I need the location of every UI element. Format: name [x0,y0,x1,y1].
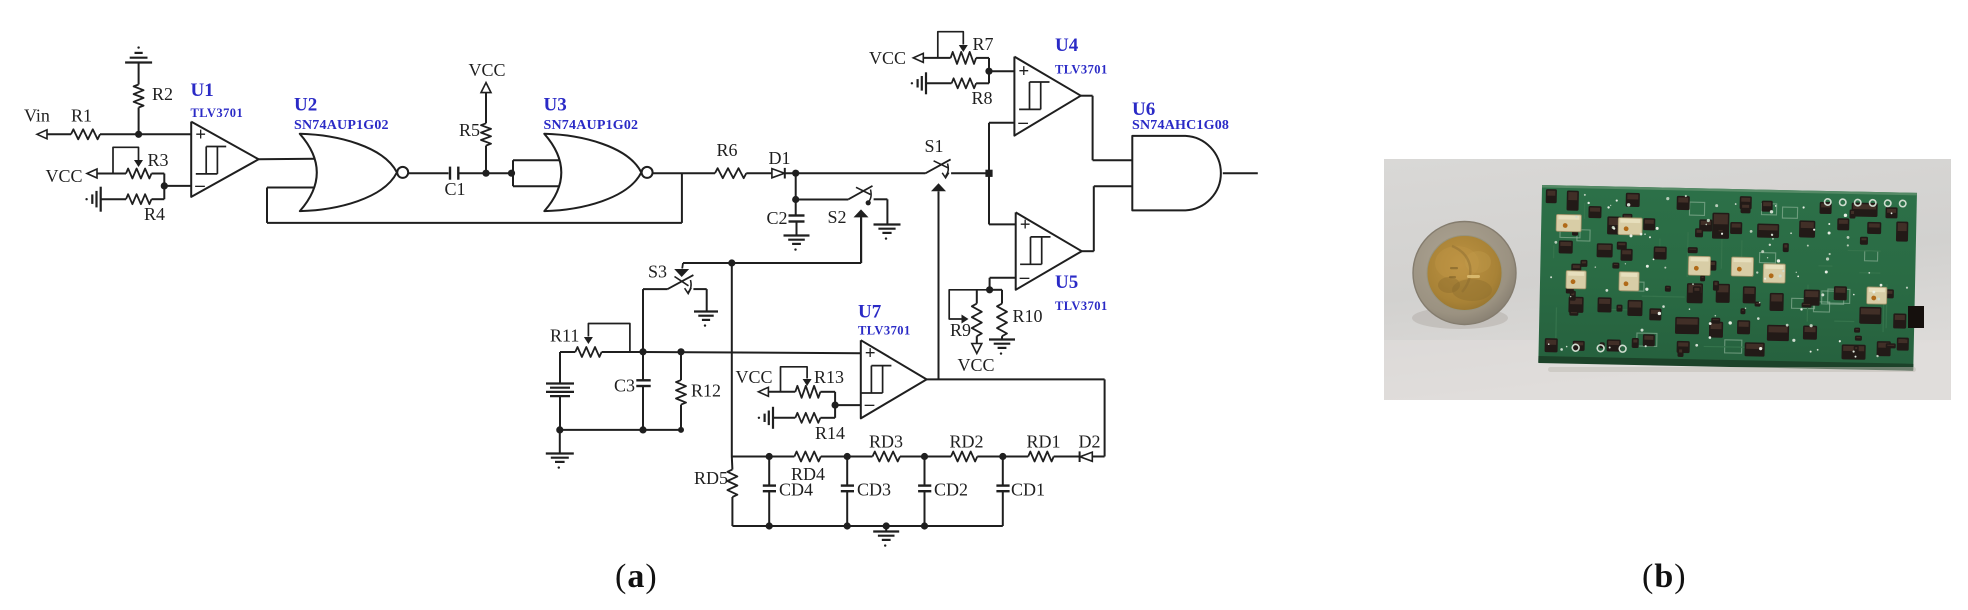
2 euro coin outer ring [1413,222,1516,325]
port VCC for R3 [46,166,98,186]
svg-text:C3: C3 [614,376,635,396]
wire U1- input [164,185,191,187]
resistor RD4 [791,452,825,485]
wire battery to bottom rail [556,396,563,433]
S1 right contact wire [951,172,985,174]
label S1 [925,136,944,156]
schematic panel (a) [0,0,1340,610]
svg-text:TLV3701: TLV3701 [1055,63,1108,77]
wire U5 minus down to R9/R10 node [986,278,1016,294]
resistor R4 [101,194,165,224]
S2 actuator arrow [854,209,869,263]
capacitor C2 [767,208,805,228]
svg-text:U4: U4 [1055,35,1079,56]
label U6 [1132,99,1155,120]
ground above R2 (flipped) [125,46,152,84]
svg-text:–: – [1017,112,1028,133]
PCB bottom shadow [1548,367,1916,372]
svg-text:CD4: CD4 [779,480,813,500]
switch S2 [828,186,873,227]
resistor R1 [71,106,100,140]
svg-text:–: – [194,175,205,196]
wire to switch S2 [796,199,849,201]
wire U5 out to U6 bottom input [1082,186,1133,251]
S3 left contact wire down to C3 node [643,289,668,352]
svg-text:R5: R5 [459,120,480,140]
port Vin arrow [37,130,47,139]
resistor R14 [773,413,845,443]
label U4 [1055,35,1079,56]
label U4 TLV3701 [1055,63,1108,77]
svg-text:–: – [1019,267,1030,288]
label U3 SN74AUP1G02 [544,118,639,133]
ground below battery [546,430,574,469]
svg-text:+: + [1018,61,1029,82]
PCB beige relay components [1555,214,1889,304]
svg-text:RD3: RD3 [869,432,903,452]
svg-text:TLV3701: TLV3701 [1055,299,1108,313]
svg-text:D2: D2 [1079,432,1101,452]
svg-text:+: + [195,124,206,145]
resistor R6 [715,140,746,178]
ground below C2 [784,222,810,251]
ground for R8 (rotated) [911,72,926,94]
svg-text:CD3: CD3 [857,480,891,500]
svg-text:SN74AHC1G08: SN74AHC1G08 [1132,118,1229,133]
svg-text:U3: U3 [544,95,567,116]
VCC port below R9 [957,336,994,375]
svg-text:R11: R11 [550,326,579,346]
resistor R12 [676,348,721,433]
svg-text:U1: U1 [191,80,214,101]
capacitor CD2 [918,457,968,527]
bottom rail battery-C3-R12 [560,429,681,431]
port Vin label [24,106,50,126]
svg-text:D1: D1 [769,148,791,168]
svg-text:U2: U2 [294,95,317,116]
svg-text:R14: R14 [815,423,845,443]
switch S1 [925,159,950,178]
capacitor CD3 [841,457,891,527]
port VCC for R7 [869,48,923,68]
ladder top rail [732,453,1080,460]
battery B1 [546,384,574,397]
wire D1 to S1 [785,170,926,177]
wire C3 node to U7 plus [643,352,861,353]
svg-text:CD1: CD1 [1011,480,1045,500]
svg-text:S2: S2 [828,207,847,227]
label S3 [648,262,667,282]
wire VCC to R7 [923,57,950,59]
svg-text:CD2: CD2 [934,480,968,500]
wire node to U7 minus [835,404,861,406]
label U1 TLV3701 [191,106,244,120]
svg-text:R6: R6 [717,140,738,160]
ladder bottom rail [732,522,1002,529]
wire VCC to R3 [97,173,126,175]
svg-text:R2: R2 [152,84,173,104]
svg-text:R13: R13 [814,367,844,387]
wire R14 to U7- node [820,405,835,418]
potentiometer R11 [550,324,630,358]
svg-text:R8: R8 [972,88,993,108]
resistor RD1 [1027,432,1061,462]
wire R4 to U1- node [152,186,165,199]
potentiometer R13 [781,367,845,398]
capacitor CD4 [763,457,813,527]
svg-text:U5: U5 [1055,272,1078,293]
label U6 SN74AHC1G08 [1132,118,1229,133]
svg-text:RD1: RD1 [1027,432,1061,452]
resistor R10 [990,290,1043,336]
wire R5 to node [485,146,487,174]
label U3 [544,95,567,116]
label U5 [1055,272,1078,293]
node S1-right junction (square) [985,170,992,177]
svg-text:–: – [864,394,875,415]
capacitor C1 [445,167,466,199]
ground for R14 (rotated) [758,407,773,429]
op-amp U5 TLV3701 [1016,212,1082,289]
svg-text:+: + [865,343,876,364]
svg-text:SN74AUP1G02: SN74AUP1G02 [544,118,639,133]
wire to U4 minus [989,122,1014,124]
svg-text:VCC: VCC [869,48,906,68]
label U2 [294,95,317,116]
vertical node wire U4- to U5+ [988,123,990,225]
svg-text:+: + [1020,214,1031,235]
diode D2 [1079,432,1105,463]
VCC port above R5 [468,60,505,123]
PCB dark components [1543,189,1912,362]
AND gate U6 SN74AHC1G08 [1132,136,1221,211]
svg-text:TLV3701: TLV3701 [858,324,911,338]
svg-text:R9: R9 [950,320,971,340]
resistor R2 [134,84,173,108]
wire R6 to D1 [746,172,772,174]
switch S3 [668,275,694,294]
ground below ladder [873,526,899,547]
feedback rail U3 out to U2 in [267,173,682,223]
svg-text:RD2: RD2 [950,432,984,452]
resistor R5 [459,120,491,146]
wire down to C2 and S2 branch [792,173,799,214]
S3 actuator arrow [674,263,689,277]
wire U3 out to R6 [653,172,715,174]
svg-text:R7: R7 [973,34,994,54]
svg-text:R10: R10 [1013,306,1043,326]
PCB solder pads speckles [1548,192,1910,359]
wire R1 to U1+ with node A junction [100,131,191,138]
PCB silkscreen and traces [1552,199,1889,356]
svg-text:R12: R12 [691,381,721,401]
svg-text:RD5: RD5 [694,468,728,488]
svg-text:R1: R1 [71,106,92,126]
wire R8 to U4+ node [976,71,989,83]
svg-text:SN74AUP1G02: SN74AUP1G02 [294,118,389,133]
label U5 TLV3701 [1055,299,1108,313]
vertical wire control node to ladder [731,263,733,457]
wire R2 to node A [138,108,140,135]
wire U1 out to U2 input [259,158,315,161]
NOR gate U2 SN74AUP1G02 [300,134,408,211]
svg-text:R4: R4 [144,204,165,224]
wire to U5 plus [989,223,1016,225]
potentiometer R3 [113,147,169,178]
op-amp U4 TLV3701 [1014,57,1080,136]
potentiometer R9 [949,290,989,340]
label U7 [858,302,882,323]
NOR gate U3 [544,134,652,211]
photo panel background [1384,159,1951,400]
PCB right edge connector [1908,306,1924,328]
svg-text:VCC: VCC [468,60,505,80]
resistor RD5 [694,457,737,527]
svg-text:VCC: VCC [46,166,83,186]
wire U2 bottom input feedback [267,188,315,223]
svg-text:VCC: VCC [957,355,994,375]
svg-text:Vin: Vin [24,106,50,126]
control wire S3 to S2 [683,217,861,266]
ground below R10 [989,336,1015,355]
label U1 [191,80,214,101]
svg-text:U7: U7 [858,302,882,323]
caption (a) [615,558,658,596]
svg-text:S1: S1 [925,136,944,156]
potentiometer R7 [938,32,994,64]
S2 right contact to ground [874,199,901,240]
wire R11 left down to battery [560,352,575,383]
wire U7 output feedback to D2 [927,379,1105,456]
wire R11 right to C3 node [602,348,647,355]
S3 right contact to ground [693,289,718,327]
svg-text:R3: R3 [148,150,169,170]
ground for R4 (rotated) [85,187,100,212]
label U2 SN74AUP1G02 [294,118,389,133]
wire R13 to U7- node [820,392,838,409]
wire U2 out to C1 [408,172,448,174]
wire node to U4 plus [989,70,1014,72]
svg-text:S3: S3 [648,262,667,282]
resistor R8 [926,78,993,108]
coin shadow [1412,307,1508,329]
svg-text:C2: C2 [767,208,788,228]
NOR gate U3 SN74AUP1G02 input tie [513,160,559,186]
resistor RD2 [950,432,984,462]
svg-text:C1: C1 [445,179,466,199]
op-amp U1 TLV3701 [191,122,258,197]
wire C1 to U3 inputs [458,170,515,177]
resistor RD3 [869,432,903,462]
diode D1 [769,148,791,179]
S1 actuator arrow and control wire [931,183,946,379]
op-amp U7 TLV3701 [861,340,927,418]
wire R3 to U1- node [152,174,168,190]
capacitor C3 [614,352,651,434]
port VCC for R13 [736,367,773,396]
wire U6 output [1223,172,1258,174]
PCB board [1538,185,1917,371]
wire R7 to U4+ node [976,58,993,75]
wire VCC to R13 [768,391,795,393]
svg-text:VCC: VCC [736,367,773,387]
label U7 TLV3701 [858,324,911,338]
wire Vin to R1 [47,133,71,135]
wire U4 out to U6 top input [1081,96,1133,161]
svg-text:TLV3701: TLV3701 [191,106,244,120]
capacitor CD1 [996,457,1045,527]
2 euro coin gold centre [1427,236,1502,311]
PCB corner holes [1572,194,1906,358]
caption (b) [1642,558,1687,596]
